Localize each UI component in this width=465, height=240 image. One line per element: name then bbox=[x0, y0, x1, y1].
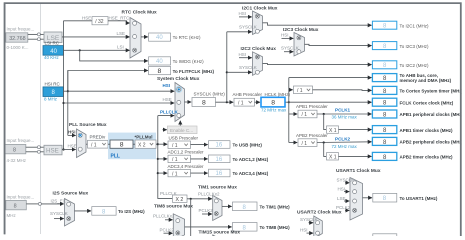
svg-text:8 MHz: 8 MHz bbox=[44, 96, 58, 101]
svg-text:40: 40 bbox=[156, 59, 163, 65]
svg-text:PLLCLKx2: PLLCLKx2 bbox=[153, 214, 175, 219]
svg-text:APB2 peripheral clocks (MHz): APB2 peripheral clocks (MHz) bbox=[400, 140, 464, 145]
box To I2C2 bbox=[372, 61, 429, 69]
svg-text:I2C1 Clock Mux: I2C1 Clock Mux bbox=[242, 5, 278, 11]
svg-text:System Clock Mux: System Clock Mux bbox=[157, 76, 200, 82]
wire HSE trunk vertical bbox=[63, 21, 65, 150]
mux I2C3 Clock Mux bbox=[281, 27, 319, 56]
svg-text:APB2 Prescaler: APB2 Prescaler bbox=[296, 133, 328, 138]
svg-text:X 1: X 1 bbox=[329, 128, 337, 134]
dropdown ADC34 prescaler /1 bbox=[168, 169, 191, 177]
wire LSI to RTC mux bbox=[64, 49, 130, 51]
svg-text:0-1000 K...: 0-1000 K... bbox=[7, 45, 29, 50]
wire LSE to RTC mux bbox=[62, 36, 130, 38]
mux PLL Source Mux bbox=[68, 122, 107, 158]
dropdown USB prescaler /1 bbox=[168, 141, 191, 149]
svg-text:X 2: X 2 bbox=[138, 142, 146, 148]
wire PLLCLK to ADC12 prescaler bbox=[158, 158, 167, 160]
wire PREDiv to PLL box bbox=[108, 143, 110, 145]
right margin mask bbox=[462, 0, 465, 236]
wire I2S SYSCLK stub bbox=[54, 218, 64, 220]
box To TIM8 bbox=[233, 223, 291, 232]
svg-text:HCLK (MHz): HCLK (MHz) bbox=[265, 92, 291, 97]
box FCLK Cortex clock bbox=[372, 98, 453, 106]
mux TIM1 source Mux bbox=[213, 196, 222, 221]
node PCLK1 junction bbox=[323, 113, 325, 115]
svg-text:PCLK2: PCLK2 bbox=[335, 136, 351, 141]
node HSE branch junction bbox=[62, 102, 64, 104]
input LSE frequency box bbox=[6, 27, 34, 51]
wire I2C3 HSI stub bbox=[282, 37, 294, 39]
svg-text:PCLK2: PCLK2 bbox=[160, 227, 175, 232]
wire HSI RC to HSI junction bbox=[64, 90, 68, 92]
svg-text:ADC1,2 Prescaler: ADC1,2 Prescaler bbox=[168, 150, 205, 155]
svg-text:8: 8 bbox=[13, 148, 16, 154]
svg-text:SYSCLK: SYSCLK bbox=[300, 217, 318, 222]
svg-text:HSI: HSI bbox=[300, 227, 308, 232]
wire PCLK2 to X1 multiplier bbox=[324, 143, 326, 157]
svg-text:72 MHz max: 72 MHz max bbox=[332, 144, 358, 149]
box To RTC bbox=[149, 33, 201, 41]
svg-text:/ 1: / 1 bbox=[91, 142, 97, 148]
svg-text:SYSCLK (MHz): SYSCLK (MHz) bbox=[194, 91, 226, 96]
wire SYSCLK to AHB prescaler bbox=[216, 101, 234, 103]
wire LSE osc-in bbox=[28, 33, 38, 35]
multiplier X2 TIM bbox=[173, 195, 188, 203]
mux USART2 Clock Mux bbox=[297, 210, 342, 239]
wire USART1 PCLK2 stub bbox=[345, 209, 349, 211]
box To TIM1 bbox=[233, 202, 291, 211]
svg-text:PLL: PLL bbox=[111, 153, 120, 159]
wire X1 to APB2 timer box bbox=[339, 155, 372, 157]
wire HSE osc-in bbox=[26, 146, 38, 148]
dropdown Cortex prescaler /1 bbox=[294, 86, 313, 94]
wire I2C3 SYSCLK stub bbox=[284, 51, 293, 53]
node LSI junction bbox=[79, 49, 81, 51]
connector pin OSC-IN bbox=[37, 146, 40, 149]
wire AHB prescaler to HCLK bbox=[255, 101, 261, 103]
svg-text:TIM15 source Mux: TIM15 source Mux bbox=[199, 229, 241, 235]
svg-text:32.768: 32.768 bbox=[9, 36, 26, 42]
svg-text:AHB Prescaler: AHB Prescaler bbox=[233, 92, 263, 97]
svg-text:To I2C3 (MHz): To I2C3 (MHz) bbox=[400, 44, 430, 49]
node HSI junction at HSI RC output bbox=[67, 90, 69, 92]
svg-text:*PLLMul: *PLLMul bbox=[135, 135, 153, 140]
node SYSCLK I2C2 branch bbox=[226, 71, 228, 73]
node PCLK2 junction bbox=[323, 141, 325, 143]
node HCLK junction bbox=[288, 101, 290, 103]
input HSE frequency box bbox=[5, 138, 34, 163]
wire I2C3 mux output bbox=[305, 44, 372, 45]
svg-text:/ 1: / 1 bbox=[238, 100, 244, 106]
wire HSI trunk vertical bbox=[67, 71, 69, 136]
wire I2C1 HSI stub bbox=[239, 16, 252, 18]
connector pin OSC32-IN bbox=[37, 33, 40, 36]
wire into Enable CSS button bbox=[163, 129, 167, 131]
wire HSE osc-out bbox=[26, 151, 38, 153]
wire Cortex prescaler to box bbox=[313, 89, 372, 92]
svg-text:LSE: LSE bbox=[117, 31, 126, 36]
svg-text:8: 8 bbox=[14, 204, 17, 210]
svg-text:8: 8 bbox=[120, 142, 124, 149]
svg-text:72 MHz max: 72 MHz max bbox=[261, 108, 287, 113]
wire TIM8 mux output bbox=[185, 226, 232, 228]
dropdown APB1 prescaler /1 bbox=[298, 110, 317, 118]
svg-text:36 MHz max: 36 MHz max bbox=[332, 115, 358, 120]
box APB2 peripheral clocks bbox=[372, 137, 463, 145]
svg-text:ADC3,4 Prescaler: ADC3,4 Prescaler bbox=[168, 164, 205, 169]
svg-text:/ 1: / 1 bbox=[302, 112, 308, 118]
multiplier X1 APB1 timers bbox=[327, 126, 339, 134]
svg-text:TIM1 source Mux: TIM1 source Mux bbox=[198, 185, 237, 191]
wire LSI to IWDG bbox=[80, 50, 148, 61]
wire to AHB bus box bbox=[289, 77, 372, 79]
svg-text:USB Prescaler: USB Prescaler bbox=[169, 135, 199, 140]
wire CSS arrow under mux bbox=[179, 121, 181, 126]
svg-text:8: 8 bbox=[202, 100, 206, 107]
svg-text:X 1: X 1 bbox=[329, 155, 337, 161]
dropdown ADC12 prescaler /1 bbox=[168, 155, 191, 163]
svg-text:Input freque...: Input freque... bbox=[7, 138, 35, 143]
svg-text:To USART1 (MHz): To USART1 (MHz) bbox=[400, 196, 438, 201]
region PLL block background bbox=[108, 133, 156, 160]
box To I2S bbox=[92, 207, 145, 216]
box To ADC1,2 bbox=[209, 155, 269, 163]
wire RTC mux output bbox=[141, 36, 148, 38]
wire USART1 LSE stub bbox=[344, 200, 349, 202]
wire mux to SYSCLK box bbox=[185, 101, 192, 103]
node PLLCLK junction bbox=[157, 143, 159, 145]
box To USART2 partial bbox=[373, 234, 397, 240]
svg-text:/ 1: / 1 bbox=[172, 143, 178, 149]
svg-text:HSE: HSE bbox=[68, 144, 77, 149]
wire HCLK trunk vertical bbox=[288, 78, 290, 143]
box To AHB bus core memory and DMA bbox=[372, 73, 451, 83]
dropdown PREDiv /1 bbox=[88, 140, 109, 148]
svg-text:Input freque...: Input freque... bbox=[7, 195, 35, 200]
connector pin I2S CKIN bbox=[38, 202, 41, 205]
svg-text:/ 32: / 32 bbox=[95, 19, 104, 25]
wire TIM1 PCLK2 stub bbox=[202, 213, 212, 215]
node ADC34 junction bbox=[157, 172, 159, 174]
svg-text:16: 16 bbox=[216, 143, 223, 149]
wire I2S ext to mux bbox=[41, 203, 63, 205]
svg-text:To TIM8 (MHz): To TIM8 (MHz) bbox=[260, 225, 291, 230]
wire PLLCLK to USB prescaler bbox=[158, 143, 167, 145]
svg-text:HSI: HSI bbox=[163, 83, 171, 88]
wire PLLCLK to System Clock Mux bbox=[158, 115, 174, 117]
svg-text:APB2 timer clocks (MHz): APB2 timer clocks (MHz) bbox=[400, 155, 454, 160]
wire ADC34 prescaler to box bbox=[191, 172, 208, 174]
wire to FCLK box bbox=[289, 101, 372, 103]
svg-text:LSI RC: LSI RC bbox=[45, 41, 60, 46]
mux I2C2 Clock Mux bbox=[239, 46, 277, 75]
wire PLL box to PLLMul bbox=[133, 143, 135, 145]
wire HSE_RTC to RTC mux bbox=[108, 21, 130, 23]
node SYSCLK trunk junction bbox=[226, 101, 228, 103]
wire PLL mux to PREDiv bbox=[86, 143, 87, 145]
mux TIM8 source Mux bbox=[173, 214, 184, 240]
svg-text:FCLK Cortex clock (MHz): FCLK Cortex clock (MHz) bbox=[400, 100, 454, 105]
svg-text:To ADC1,2 (MHz): To ADC1,2 (MHz) bbox=[233, 157, 269, 162]
svg-text:HSI: HSI bbox=[239, 52, 247, 57]
wire PLLCLKx2 trunk down bbox=[190, 199, 192, 236]
svg-text:To I2C2 (MHz): To I2C2 (MHz) bbox=[400, 63, 430, 68]
svg-text:RTC Clock Mux: RTC Clock Mux bbox=[122, 9, 158, 15]
svg-text:X 2: X 2 bbox=[176, 197, 184, 203]
multiplier X1 APB2 timers bbox=[327, 153, 339, 161]
svg-text:SYSCLK: SYSCLK bbox=[239, 65, 257, 70]
mux I2S Source Mux bbox=[53, 191, 89, 226]
svg-text:40 KHz: 40 KHz bbox=[44, 55, 60, 60]
svg-text:LSI: LSI bbox=[117, 45, 124, 50]
oscillator HSE bbox=[40, 145, 62, 155]
wire HSE to /32 divider bbox=[64, 20, 93, 22]
connector pin OSC32-OUT bbox=[37, 38, 40, 41]
box PLL input freq 8 bbox=[110, 140, 133, 149]
svg-text:/ 1: / 1 bbox=[302, 141, 308, 147]
node PLLCLKx2 junction bbox=[190, 198, 192, 200]
svg-text:To Cortex System timer (MHz): To Cortex System timer (MHz) bbox=[400, 89, 464, 94]
node HSE junction bbox=[62, 148, 64, 150]
left column separator bbox=[40, 4, 42, 234]
svg-text:HSI RC: HSI RC bbox=[45, 82, 61, 87]
button Enable CSS (disabled) bbox=[168, 126, 198, 134]
wire USART1 mux output bbox=[363, 197, 373, 199]
mux TIM15 tip bbox=[213, 235, 222, 240]
svg-text:40: 40 bbox=[50, 49, 57, 55]
svg-text:APB1 peripheral clocks (MHz): APB1 peripheral clocks (MHz) bbox=[400, 112, 464, 117]
wire USART2 HSI stub bbox=[307, 232, 314, 234]
svg-text:16: 16 bbox=[216, 171, 223, 177]
box To IWDG bbox=[149, 57, 205, 65]
svg-text:I2S Source Mux: I2S Source Mux bbox=[53, 191, 89, 197]
svg-text:SYSCLK: SYSCLK bbox=[239, 25, 257, 30]
node ADC12 junction bbox=[157, 158, 159, 160]
box To I2C1 bbox=[372, 21, 429, 29]
svg-text:To USB (MHz): To USB (MHz) bbox=[233, 143, 263, 148]
svg-text:To I2C1 (MHz): To I2C1 (MHz) bbox=[400, 23, 430, 28]
svg-text:To TIM1 (MHz): To TIM1 (MHz) bbox=[260, 205, 291, 210]
mux RTC Clock Mux bbox=[122, 9, 158, 58]
oscillator LSE bbox=[40, 32, 62, 43]
svg-text:8: 8 bbox=[271, 100, 275, 107]
svg-text:PLLCLKx2: PLLCLKx2 bbox=[198, 191, 220, 196]
mux I2C1 Clock Mux bbox=[239, 5, 278, 34]
box APB2 timer clocks bbox=[372, 152, 453, 160]
svg-text:HSI: HSI bbox=[239, 11, 247, 16]
svg-text:SYSCLK: SYSCLK bbox=[281, 46, 299, 51]
svg-text:/ 1: / 1 bbox=[297, 88, 303, 94]
svg-text:PCLK1: PCLK1 bbox=[335, 108, 351, 113]
wire PCLK1 to X1 multiplier bbox=[324, 114, 326, 130]
svg-text:memory and DMA (MHz): memory and DMA (MHz) bbox=[400, 78, 452, 83]
dropdown APB2 prescaler /1 bbox=[298, 139, 317, 147]
dropdown AHB prescaler /1 bbox=[234, 98, 255, 106]
svg-text:HSE: HSE bbox=[82, 15, 91, 20]
box To I2C3 bbox=[372, 42, 429, 50]
oscillator HSI RC 8 MHz bbox=[43, 82, 64, 102]
wire HSE to PLL Source Mux bbox=[62, 149, 76, 151]
box APB1 peripheral clocks bbox=[372, 110, 463, 118]
box To FLITFCLK bbox=[149, 67, 215, 76]
svg-text:To ADC3,4 (MHz): To ADC3,4 (MHz) bbox=[233, 171, 269, 176]
wire SYSCLK to I2C1 mux bbox=[227, 31, 252, 33]
wire I2S mux output bbox=[75, 210, 92, 212]
svg-text:Enable C...: Enable C... bbox=[170, 128, 193, 133]
wire USART1 SYSCLK stub bbox=[345, 182, 349, 184]
svg-text:To FLITFCLK (MHz): To FLITFCLK (MHz) bbox=[173, 69, 215, 74]
svg-text:PCLK2: PCLK2 bbox=[199, 208, 214, 213]
wire LSE osc-out bbox=[28, 38, 38, 40]
svg-text:HSI: HSI bbox=[281, 33, 289, 38]
svg-text:40: 40 bbox=[156, 35, 163, 41]
svg-text:/ 1: / 1 bbox=[172, 157, 178, 163]
wire HCLK to trunk bbox=[286, 101, 289, 103]
wire X1 to APB1 timer box bbox=[339, 129, 372, 131]
divider HSE/32 bbox=[92, 17, 108, 25]
wire to APB1 prescaler bbox=[289, 113, 297, 115]
wire TIM8 PCLK2 stub bbox=[164, 232, 173, 234]
svg-text:HSE: HSE bbox=[46, 148, 59, 155]
svg-text:HSE_RTC: HSE_RTC bbox=[109, 15, 131, 20]
wire SYSCLK trunk vertical bbox=[226, 32, 228, 102]
wire to APB2 prescaler bbox=[289, 142, 297, 144]
wire PCLK1 to APB1 peripheral box bbox=[317, 113, 372, 115]
svg-text:/ 1: / 1 bbox=[172, 171, 178, 177]
dropdown PLLMul X2 bbox=[135, 140, 156, 148]
wire HSE to System Clock Mux bbox=[64, 102, 175, 104]
svg-text:PREDiv: PREDiv bbox=[90, 135, 107, 140]
svg-text:HSE: HSE bbox=[163, 97, 172, 102]
svg-text:PLL Source Mux: PLL Source Mux bbox=[69, 122, 107, 128]
svg-text:USART2 Clock Mux: USART2 Clock Mux bbox=[297, 210, 342, 216]
svg-text:SYSCLK: SYSCLK bbox=[337, 178, 355, 183]
svg-text:PCLK2: PCLK2 bbox=[336, 205, 351, 210]
wire HSI to PLL Source Mux bbox=[68, 134, 76, 136]
wire PLLCLK trunk bbox=[156, 116, 172, 199]
svg-text:To RTC (KHz): To RTC (KHz) bbox=[173, 35, 201, 40]
wire ADC12 prescaler to box bbox=[191, 158, 208, 160]
svg-text:LSE: LSE bbox=[337, 196, 346, 201]
svg-text:APB1 timer clocks (MHz): APB1 timer clocks (MHz) bbox=[400, 128, 454, 133]
wire PCLK2 to APB2 peripheral box bbox=[317, 141, 372, 144]
wire PLLCLK to ADC34 prescaler bbox=[158, 172, 167, 174]
wire to Cortex prescaler bbox=[289, 89, 293, 91]
wire USART2 SYSCLK stub bbox=[309, 222, 314, 224]
wire SYSCLK to I2C2 mux bbox=[227, 71, 252, 73]
box To USB bbox=[209, 141, 263, 149]
svg-text:8: 8 bbox=[158, 68, 162, 75]
svg-text:HSI: HSI bbox=[338, 186, 346, 191]
svg-text:APB1 Prescaler: APB1 Prescaler bbox=[296, 104, 328, 109]
svg-text:SYSCLK: SYSCLK bbox=[50, 211, 68, 216]
svg-text:16: 16 bbox=[216, 157, 223, 163]
connector pin OSC-OUT bbox=[37, 150, 40, 153]
svg-text:PLLCLK: PLLCLK bbox=[160, 110, 178, 115]
svg-text:Input freque...: Input freque... bbox=[7, 27, 35, 32]
svg-text:To I2S (MHz): To I2S (MHz) bbox=[118, 209, 145, 214]
mux System Clock Mux bbox=[157, 76, 200, 122]
wire HSI to FLITFCLK bbox=[68, 71, 148, 92]
svg-text:USART1 Clock Mux: USART1 Clock Mux bbox=[336, 168, 381, 174]
wire I2C1 mux output bbox=[263, 23, 372, 25]
svg-text:I2S_EX: I2S_EX bbox=[51, 198, 66, 203]
box To Cortex System timer bbox=[372, 86, 463, 94]
svg-text:MHz: MHz bbox=[7, 213, 17, 218]
wire I2C2 mux output bbox=[263, 64, 372, 65]
svg-text:TIM8 source Mux: TIM8 source Mux bbox=[154, 204, 193, 210]
svg-text:4-32 MHz: 4-32 MHz bbox=[7, 158, 27, 163]
box SYSCLK value bbox=[192, 98, 216, 107]
wire TIM1 mux output bbox=[222, 205, 232, 207]
box HCLK highlighted bbox=[261, 97, 287, 112]
oscillator LSI RC 40 KHz bbox=[43, 41, 64, 60]
wire X2 to TIM1 mux bbox=[187, 198, 212, 200]
box APB1 timer clocks bbox=[372, 126, 453, 134]
wire USART1 HSI stub bbox=[344, 191, 349, 193]
input I2S external frequency box bbox=[6, 195, 34, 218]
mux USART1 Clock Mux bbox=[336, 168, 381, 220]
wire USB prescaler to box bbox=[191, 144, 208, 146]
wire I2S ext input bbox=[26, 203, 38, 205]
box To ADC3,4 bbox=[209, 169, 269, 177]
svg-text:To IWDG (KHz): To IWDG (KHz) bbox=[173, 59, 205, 64]
wire I2C2 HSI stub bbox=[239, 57, 252, 59]
wire HSI to System Clock Mux bbox=[68, 90, 174, 92]
box To USART1 bbox=[373, 193, 438, 202]
svg-text:HSI: HSI bbox=[68, 130, 76, 135]
wire TIM8 PLLCLKx2 stub bbox=[165, 219, 173, 221]
